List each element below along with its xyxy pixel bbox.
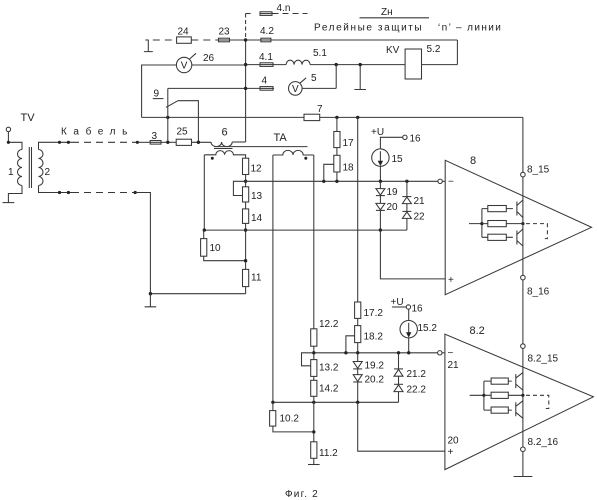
wire dashed feedback 8.2 (526, 395, 549, 408)
svg-text:24: 24 (178, 27, 190, 38)
node row4/column (244, 87, 247, 90)
terminal 16 channel 2 (406, 305, 410, 309)
resistor 18.2 (355, 326, 361, 343)
svg-text:26: 26 (203, 53, 215, 64)
terminal minus input 8.2 (438, 351, 442, 355)
svg-text:11.2: 11.2 (319, 448, 338, 459)
transistor Q2 (517, 229, 523, 246)
node rail mid 8 (480, 222, 483, 225)
node R17 chain on row 7 (335, 116, 338, 119)
svg-text:10: 10 (210, 243, 222, 254)
current source 15.2 (400, 321, 417, 338)
svg-text:11: 11 (251, 273, 262, 284)
transistor Q3 (516, 373, 523, 391)
node diode chain on bus1 right (405, 180, 408, 183)
wire R13.2 to R14.2 (313, 376, 315, 380)
svg-text:4: 4 (262, 76, 268, 87)
wire stub to R18.2 tap (346, 336, 355, 353)
op-amp U8 triangle (445, 160, 591, 294)
svg-text:19: 19 (387, 187, 399, 198)
node bus2 stub (344, 351, 347, 354)
svg-text:7: 7 (317, 104, 323, 115)
svg-text:10.2: 10.2 (280, 414, 300, 425)
svg-text:19.2: 19.2 (365, 361, 385, 372)
ground stub under row 4.1 (354, 65, 366, 90)
svg-text:20: 20 (387, 202, 399, 213)
svg-text:5.2: 5.2 (427, 44, 441, 55)
node ground stub (359, 63, 362, 66)
wire cable bottom dashed (72, 192, 135, 194)
svg-text:8_15: 8_15 (527, 165, 550, 176)
terminal 8.2_15 (521, 344, 526, 349)
wire winding1 bottom to ground (8, 186, 22, 203)
node cable top b (67, 141, 70, 144)
wire row 4 (168, 65, 336, 89)
transformer 6 secondary winding (204, 151, 245, 159)
internal resistor mid 8 (482, 221, 523, 227)
wire row 7 supply (142, 116, 523, 118)
wire return row channel 1 (204, 229, 407, 231)
resistor 4.n (260, 12, 272, 16)
terminal 8_16 (521, 275, 526, 280)
wire R14.2 to bottom node (313, 396, 315, 442)
resistor 7 (304, 114, 320, 120)
svg-text:8_16: 8_16 (527, 287, 550, 298)
svg-text:16: 16 (412, 304, 424, 315)
wire cable top lead (39, 142, 73, 149)
svg-text:‘n’ – линии: ‘n’ – линии (438, 23, 502, 34)
node long vertical on row 7 (356, 116, 359, 119)
svg-text:3: 3 (152, 131, 158, 142)
current source 15 (372, 149, 389, 166)
svg-text:13: 13 (251, 191, 263, 202)
switch 9 top path (178, 101, 199, 143)
terminal 8.2_16 (521, 447, 526, 452)
resistor 4.1 (260, 63, 273, 67)
node row4.2/column (244, 38, 247, 41)
svg-text:TA: TA (274, 132, 288, 144)
svg-text:Релейные защиты: Релейные защиты (314, 23, 423, 34)
svg-text:+U: +U (391, 297, 404, 308)
resistor 12 (243, 158, 249, 174)
svg-text:6: 6 (222, 127, 228, 139)
wire source 15.2 top (408, 309, 410, 320)
inductor 5.1 (286, 60, 310, 64)
resistor 25 (176, 139, 191, 145)
resistor 14 (243, 209, 249, 224)
relay KV box (405, 49, 421, 79)
node left of R25 (166, 141, 169, 144)
svg-text:+: + (448, 275, 454, 286)
resistor 17 (334, 132, 340, 148)
wire resistor3 to resistor25 (161, 141, 176, 143)
wire row 4.n dash-dot (246, 13, 252, 15)
wire bus1 to op-amp minus (246, 180, 438, 182)
wire to op-amp plus input (380, 230, 445, 279)
svg-text:KV: KV (386, 45, 400, 56)
node R18 bottom on bus1 (335, 180, 338, 183)
diode 21 (402, 181, 411, 203)
svg-text:1: 1 (8, 167, 14, 178)
resistor 23 (219, 38, 230, 42)
svg-text:16: 16 (410, 134, 422, 145)
node cable top a (58, 141, 61, 144)
wire stub to resistor 18 tap (324, 164, 334, 181)
svg-text:2: 2 (45, 167, 51, 178)
svg-text:+: + (448, 447, 454, 458)
ground cable bottom (145, 294, 157, 307)
wire R18.2 bottom to bus2 (357, 343, 359, 353)
resistor 4 (260, 87, 273, 91)
node return2 left (271, 401, 274, 404)
resistor 13 (243, 187, 249, 202)
svg-text:8.2_16: 8.2_16 (528, 437, 559, 448)
wire V26 left and left vertical (142, 65, 177, 117)
node chain/return crossing (244, 228, 247, 231)
TA secondary winding (273, 150, 314, 155)
wire 6-secondary left vertical (203, 155, 205, 230)
node return/diodes (379, 228, 382, 231)
internal resistor bottom 8.2 (484, 407, 512, 413)
wire cable bottom lead (39, 186, 73, 193)
node TV top (7, 141, 10, 144)
ground TV (3, 202, 15, 204)
internal resistor top 8 (482, 206, 513, 212)
wire +U stub channel 2 (392, 306, 406, 308)
wire minus circle to edge 8.2 (442, 352, 445, 354)
node 6 secondary polarity dot (211, 157, 214, 160)
node R10.2 bottom junction (312, 430, 315, 433)
transistor Q1 (517, 200, 523, 218)
node stub18 on bus1 (322, 180, 325, 183)
wire R25 to transformer 6 (192, 141, 212, 143)
resistor 12.2 (311, 329, 317, 346)
voltmeter V26 (176, 53, 196, 72)
internal resistor bottom 8 (482, 234, 513, 240)
ground supply bottom (514, 476, 533, 478)
svg-text:21: 21 (448, 360, 460, 371)
wire cable bottom corner down (135, 193, 245, 294)
winding 1 TV primary (18, 150, 23, 186)
wire R12 to R13 (245, 175, 247, 187)
internal resistor mid 8.2 (484, 392, 523, 398)
resistor 11 (243, 269, 249, 286)
svg-text:14.2: 14.2 (319, 384, 339, 395)
transformer 6 / TA core line long (214, 146, 308, 148)
wire Zн underline (360, 17, 430, 19)
node cable bottom b (67, 191, 70, 194)
wire R17 chain vertical (336, 117, 338, 181)
wire R12.2 to R13.2 (313, 346, 315, 359)
diode 20.2 (353, 369, 362, 402)
svg-text:22.2: 22.2 (407, 385, 427, 396)
wire TA right vertical (313, 155, 315, 329)
transistor Q4 (516, 401, 523, 419)
wire to op-amp 8.2 plus input (358, 402, 445, 451)
terminal 8_15 (521, 172, 526, 177)
diode 21.2 (394, 353, 403, 376)
wire R14 down through return to R11 (245, 223, 247, 269)
diode 20 (376, 196, 385, 231)
svg-text:18: 18 (343, 163, 355, 174)
svg-text:17: 17 (343, 138, 355, 149)
diode 22 (402, 204, 411, 231)
svg-text:−: − (448, 177, 454, 188)
svg-text:17.2: 17.2 (364, 308, 384, 319)
wire long vertical to channel 2 (357, 117, 359, 302)
svg-text:15: 15 (392, 154, 404, 165)
resistor 10 (201, 230, 246, 261)
transformer 6 core line short (214, 148, 233, 150)
wire source 15.2 bottom to bus2 (408, 338, 410, 353)
terminal minus input 8 (438, 179, 442, 183)
diode 22.2 (394, 376, 403, 402)
wire dash between 24 and 23 (191, 39, 218, 41)
wire dashed feedback 8 (526, 224, 547, 239)
node rail mid 8.2 (482, 394, 485, 397)
wire TA left vertical (272, 155, 274, 402)
svg-text:12.2: 12.2 (319, 319, 339, 330)
node cable bottom c (134, 191, 137, 194)
node bus2 chain (356, 351, 359, 354)
diode 19 (376, 181, 385, 195)
wire bus2 (314, 352, 438, 354)
TV core (29, 147, 31, 188)
resistor 18 (334, 155, 340, 172)
wire row 4.2 solid (230, 39, 458, 41)
resistor 14.2 (311, 380, 317, 396)
diode 19.2 (353, 353, 362, 369)
internal resistor rail op-amp 8 (469, 209, 482, 238)
wire return row channel 2 (273, 401, 399, 403)
svg-text:25: 25 (177, 127, 189, 138)
svg-text:12: 12 (251, 164, 263, 175)
switch 9 underline (153, 98, 164, 100)
svg-text:V: V (181, 61, 188, 72)
resistor 17.2 (355, 302, 361, 318)
svg-text:23: 23 (219, 27, 231, 38)
node cable bottom a (58, 191, 61, 194)
svg-text:Кабель: Кабель (61, 126, 134, 138)
wire R11 to bottom row (245, 287, 247, 294)
ground channel 2 (308, 464, 320, 466)
node right of R25 (197, 141, 200, 144)
switch 9 vertical left (167, 88, 169, 142)
wire V26 right to column (192, 64, 246, 66)
internal resistor top 8.2 (484, 378, 512, 384)
wire right loop corner (456, 40, 458, 65)
resistor 4.2 (261, 38, 271, 42)
wire minus circle to edge (442, 180, 445, 182)
wire R13 to R14 (245, 202, 247, 209)
svg-text:Фиг. 2: Фиг. 2 (285, 489, 319, 500)
svg-text:4.1: 4.1 (259, 52, 273, 63)
svg-text:18.2: 18.2 (364, 332, 384, 343)
resistor 10.2 (270, 402, 314, 432)
node R10 bottom junction (244, 259, 247, 262)
wire cable top dashed (72, 141, 137, 143)
terminal 16 (403, 135, 407, 139)
svg-text:4.n: 4.n (277, 3, 291, 14)
node cable top c (136, 141, 139, 144)
svg-text:14: 14 (251, 213, 263, 224)
resistor 11.2 (311, 442, 317, 459)
wire source top to +U corner (380, 137, 402, 149)
wire cable top to resistor 3 (137, 141, 150, 143)
svg-text:21: 21 (414, 196, 426, 207)
svg-text:4.2: 4.2 (260, 26, 274, 37)
node ground junction (149, 292, 152, 295)
winding 2 TV secondary (39, 150, 44, 186)
internal resistor rail op-amp 8.2 (470, 381, 484, 410)
svg-text:−: − (448, 348, 454, 359)
svg-text:20.2: 20.2 (365, 375, 385, 386)
resistor 24 (177, 37, 192, 43)
node return2 diodes (356, 401, 359, 404)
svg-text:13.2: 13.2 (319, 363, 339, 374)
wire supply vertical through op-amp 8 (522, 117, 524, 476)
svg-text:5: 5 (311, 73, 317, 84)
wire bypass of R13.2 (302, 353, 314, 366)
svg-text:22: 22 (414, 212, 426, 223)
node row4.1/column (244, 63, 247, 66)
node source on bus2 (407, 351, 410, 354)
node diodes 21.2 on bus2 (397, 351, 400, 354)
resistor 13.2 (311, 360, 317, 377)
node return2 chain (312, 401, 315, 404)
svg-text:TV: TV (21, 112, 36, 124)
wire terminal to winding 1 (8, 132, 22, 150)
svg-text:V: V (292, 84, 299, 95)
wire row 4.2 dashed left (153, 39, 177, 41)
wire R17.2 to R18.2 (357, 318, 359, 325)
node emitter junction 8.2 (521, 394, 524, 397)
node bus2 left (312, 351, 315, 354)
cable sheath ground left (144, 40, 153, 52)
svg-text:9: 9 (154, 89, 160, 100)
svg-text:8.2: 8.2 (470, 325, 485, 337)
node emitter junction 8 (521, 222, 524, 225)
wire vertical node column x=245.6 (dash-dot top, solid below) (245, 14, 247, 41)
node V5 branch on row 4.1 (335, 63, 338, 66)
svg-text:15.2: 15.2 (418, 323, 438, 334)
node TA polarity dot (304, 157, 307, 160)
node source/diodes on bus1 (379, 180, 382, 183)
node switch column on row 7 (166, 116, 169, 119)
voltmeter V5 (289, 78, 307, 95)
resistor 3 (150, 141, 161, 145)
wire bypass of R13 (233, 181, 245, 195)
svg-text:21.2: 21.2 (407, 369, 427, 380)
transformer 6 primary winding (211, 142, 232, 147)
op-amp U8.2 triangle (445, 334, 594, 469)
wire row 4.1 (246, 64, 458, 66)
node bus1 left (244, 180, 247, 183)
wire 6 primary to relay column (232, 141, 245, 143)
svg-text:Zн: Zн (381, 7, 393, 18)
wire source bottom to bus1 (379, 166, 381, 181)
svg-text:5.1: 5.1 (313, 48, 327, 59)
node return left (203, 228, 206, 231)
switch 9 blade (166, 101, 178, 108)
svg-text:+U: +U (371, 127, 384, 138)
svg-text:8: 8 (470, 155, 476, 167)
svg-text:8.2_15: 8.2_15 (528, 354, 559, 365)
terminal circle TV input (6, 127, 10, 131)
wire R11.2 to ground (313, 458, 315, 464)
svg-text:20: 20 (448, 436, 460, 447)
